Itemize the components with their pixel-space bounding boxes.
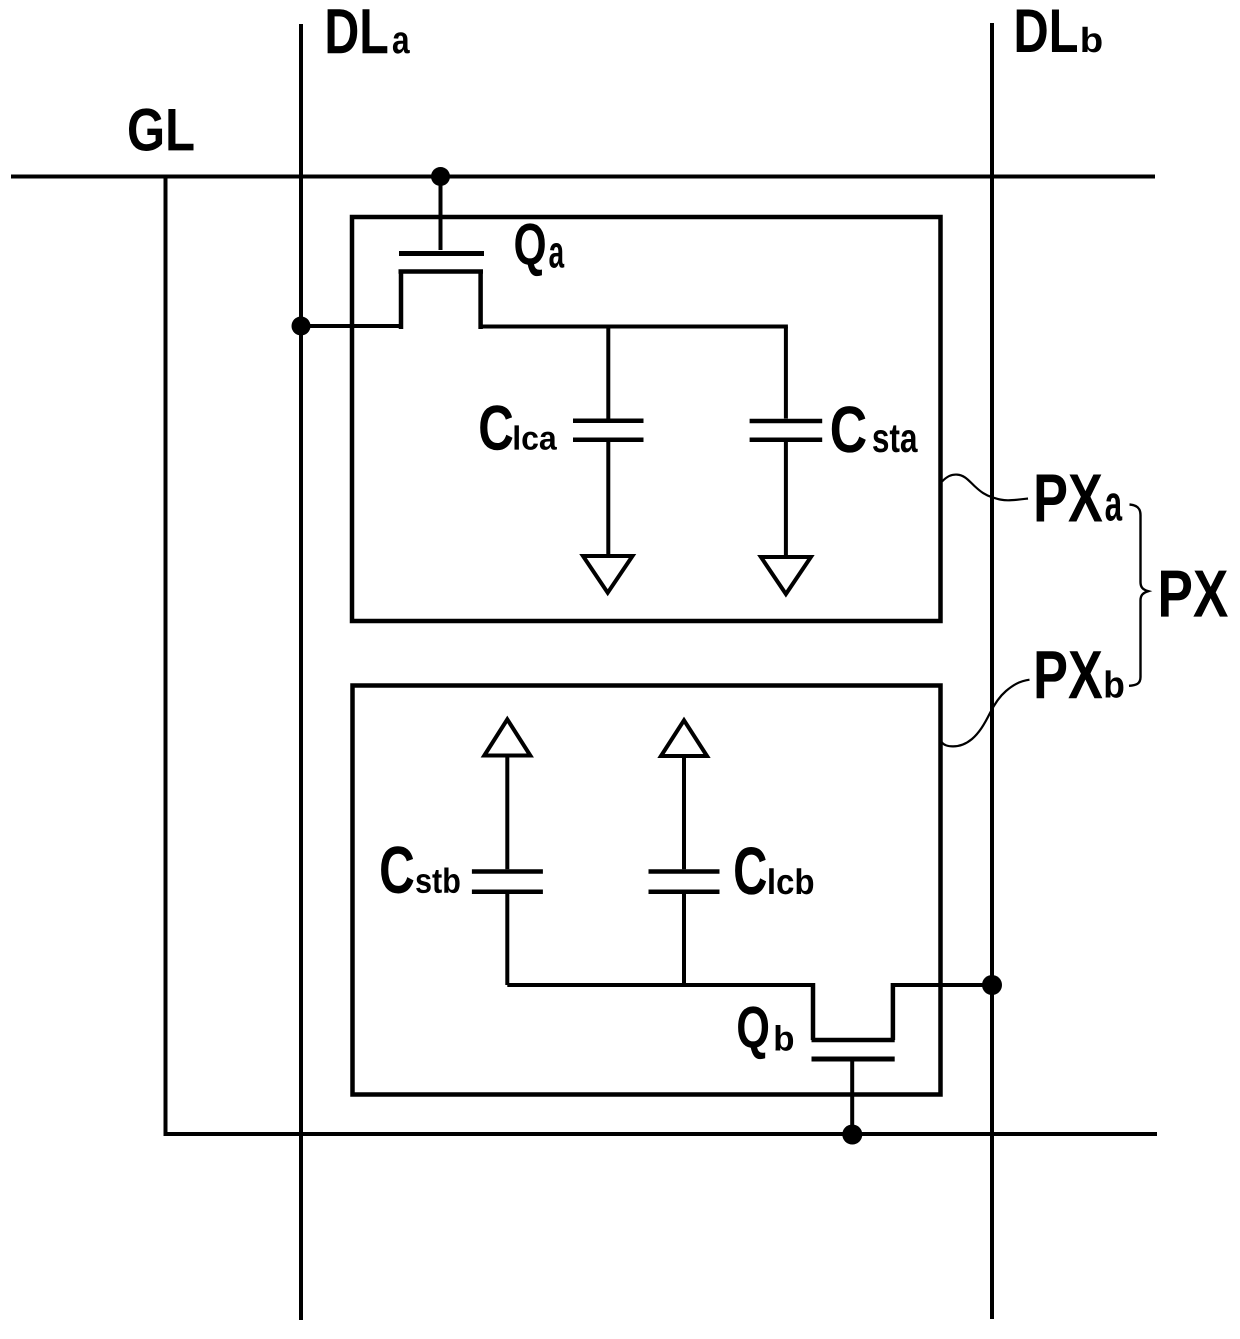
wire Qb gate lead to bottom line	[850, 1059, 854, 1134]
wire capacitors to Qb source	[507, 983, 813, 987]
node junction dot on bottom line	[842, 1125, 862, 1145]
leader line from box PXa to its label	[942, 475, 1028, 501]
label Qb	[738, 1006, 793, 1059]
label PX	[1161, 571, 1228, 617]
label Clca	[480, 405, 557, 450]
pixel electrode box PXb outline	[353, 686, 941, 1095]
label PXb	[1037, 651, 1124, 698]
capacitor Cstb top lead	[505, 756, 509, 870]
label GL	[129, 108, 194, 151]
wire DLa data line	[299, 24, 303, 1320]
label Clcb	[735, 847, 813, 895]
wire bottom horizontal line	[164, 1132, 1158, 1136]
pixel electrode box PXa outline	[352, 217, 941, 621]
capacitor Clca plates	[573, 421, 644, 440]
common electrode arrow symbol above Clcb	[661, 720, 707, 756]
capacitor Clcb top lead	[682, 756, 686, 869]
transistor Qa gate bar	[399, 251, 484, 256]
wire Qa drain to capacitors Clca and Csta	[479, 325, 788, 329]
wire Qa gate lead	[439, 177, 443, 251]
wire Cstb bottom lead	[505, 894, 509, 985]
label Cstb	[381, 846, 460, 893]
brace grouping PXa and PXb into PX	[1129, 505, 1148, 686]
wire Clca bottom lead to ground	[606, 442, 610, 556]
capacitor Clca top lead	[606, 327, 610, 419]
capacitor Cstb plates	[472, 872, 543, 892]
wire Qb drain to DLb	[893, 983, 992, 987]
capacitor Csta top lead	[784, 327, 788, 419]
transistor Qa channel and source/drain legs	[399, 272, 484, 330]
label DLa	[328, 9, 410, 53]
wire DLa to Qa source	[301, 324, 403, 328]
node junction dot on DLa	[292, 317, 311, 336]
label PXa	[1037, 474, 1123, 521]
label DLb	[1017, 10, 1102, 53]
transistor Qb gate bar	[812, 1057, 895, 1062]
node junction dot on GL at Qa gate	[431, 167, 450, 186]
capacitor Csta plates	[750, 421, 823, 440]
transistor Qb channel and source/drain legs	[812, 983, 895, 1040]
wire DLb data line	[990, 23, 994, 1319]
ground symbol under Clca	[583, 556, 633, 593]
wire Csta bottom lead to ground	[784, 442, 788, 557]
label Csta	[832, 406, 918, 453]
wire GL gate line	[11, 175, 1155, 179]
wire left vertical branch of GL	[164, 177, 168, 1135]
leader line from box PXb to its label	[942, 680, 1030, 747]
wire Clcb bottom lead	[682, 894, 686, 985]
capacitor Clcb plates	[649, 872, 720, 892]
common electrode arrow symbol above Cstb	[484, 719, 530, 755]
ground symbol under Csta	[761, 557, 811, 594]
node junction dot on DLb	[982, 975, 1002, 995]
label Qa	[515, 223, 564, 276]
